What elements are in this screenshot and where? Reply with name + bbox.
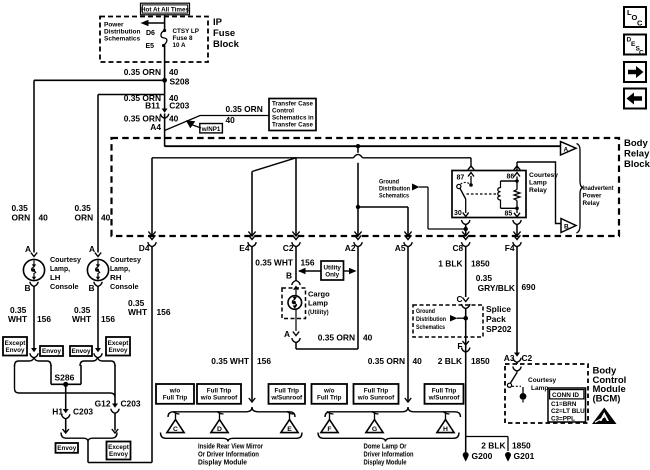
svg-text:Block: Block bbox=[213, 39, 240, 50]
svg-text:1850: 1850 bbox=[512, 441, 531, 451]
svg-text:F4: F4 bbox=[505, 243, 515, 253]
svg-text:Fuse: Fuse bbox=[213, 28, 235, 39]
svg-text:C2=LT BLU: C2=LT BLU bbox=[551, 408, 585, 415]
svg-text:Console: Console bbox=[110, 282, 139, 291]
svg-text:Distribution: Distribution bbox=[416, 316, 446, 323]
svg-text:A: A bbox=[284, 329, 290, 339]
svg-text:w/o: w/o bbox=[323, 388, 335, 395]
svg-text:Driver Information: Driver Information bbox=[364, 452, 414, 459]
svg-text:Body: Body bbox=[624, 138, 648, 149]
svg-text:A: A bbox=[564, 146, 569, 153]
svg-text:B: B bbox=[88, 283, 94, 293]
svg-text:Pack: Pack bbox=[486, 314, 506, 324]
svg-text:C: C bbox=[639, 50, 644, 57]
svg-text:0.35 ORN: 0.35 ORN bbox=[318, 333, 355, 343]
svg-text:CTSY LP: CTSY LP bbox=[173, 28, 199, 35]
svg-text:0.35: 0.35 bbox=[75, 203, 92, 213]
svg-text:Full Trip: Full Trip bbox=[364, 388, 389, 395]
svg-text:A4: A4 bbox=[150, 122, 161, 132]
svg-text:1 BLK: 1 BLK bbox=[438, 259, 462, 269]
svg-text:30: 30 bbox=[454, 210, 462, 217]
svg-text:156: 156 bbox=[257, 356, 271, 366]
svg-text:Power: Power bbox=[104, 22, 124, 29]
svg-text:C3=PPL: C3=PPL bbox=[551, 415, 575, 422]
svg-text:Inside Rear View Mirror: Inside Rear View Mirror bbox=[198, 444, 263, 451]
svg-text:Transfer Case: Transfer Case bbox=[272, 122, 313, 129]
svg-text:B11: B11 bbox=[145, 101, 160, 111]
svg-text:Envoy: Envoy bbox=[6, 347, 25, 354]
svg-text:Relay: Relay bbox=[529, 187, 547, 194]
svg-text:Courtesy: Courtesy bbox=[528, 377, 557, 384]
svg-text:Lamp: Lamp bbox=[529, 180, 547, 187]
svg-text:40: 40 bbox=[101, 213, 111, 223]
svg-text:Lamp,: Lamp, bbox=[110, 264, 130, 273]
svg-text:0.35 ORN: 0.35 ORN bbox=[226, 104, 263, 114]
svg-text:LH: LH bbox=[50, 273, 61, 282]
svg-text:A2: A2 bbox=[345, 243, 356, 253]
svg-text:Splice: Splice bbox=[486, 304, 511, 314]
svg-text:Lamp: Lamp bbox=[531, 385, 548, 392]
svg-text:Display Module: Display Module bbox=[198, 460, 247, 467]
svg-text:Only: Only bbox=[325, 272, 339, 279]
svg-text:D: D bbox=[217, 426, 222, 433]
svg-text:C: C bbox=[637, 19, 643, 28]
svg-text:Schematics: Schematics bbox=[416, 324, 445, 331]
svg-text:156: 156 bbox=[37, 314, 51, 324]
svg-text:ORN: ORN bbox=[75, 213, 94, 223]
svg-text:A5: A5 bbox=[395, 243, 406, 253]
svg-text:C8: C8 bbox=[452, 243, 463, 253]
svg-text:Or Driver Information: Or Driver Information bbox=[198, 452, 259, 459]
svg-text:E5: E5 bbox=[146, 43, 155, 50]
svg-text:C1=BRN: C1=BRN bbox=[551, 401, 577, 408]
svg-text:Envoy: Envoy bbox=[57, 445, 76, 452]
svg-text:2 BLK: 2 BLK bbox=[438, 356, 462, 366]
svg-text:85: 85 bbox=[505, 211, 513, 218]
svg-text:156: 156 bbox=[301, 258, 315, 268]
svg-text:Ground: Ground bbox=[416, 308, 435, 315]
svg-text:Utility: Utility bbox=[323, 265, 341, 272]
svg-text:Dome Lamp Or: Dome Lamp Or bbox=[364, 444, 407, 451]
svg-text:1850: 1850 bbox=[471, 356, 490, 366]
svg-text:Lamp,: Lamp, bbox=[50, 264, 70, 273]
svg-text:G12: G12 bbox=[95, 399, 111, 409]
svg-text:Full Trip: Full Trip bbox=[275, 388, 300, 395]
svg-text:C: C bbox=[173, 426, 178, 433]
svg-text:D6: D6 bbox=[146, 30, 155, 37]
svg-text:Envoy: Envoy bbox=[109, 347, 128, 354]
svg-text:w/o Sunroof: w/o Sunroof bbox=[357, 395, 395, 402]
svg-text:A: A bbox=[89, 244, 95, 254]
svg-text:w/o Sunroof: w/o Sunroof bbox=[200, 395, 238, 402]
svg-text:40: 40 bbox=[169, 67, 179, 77]
svg-text:CONN ID: CONN ID bbox=[552, 392, 579, 399]
svg-text:WHT: WHT bbox=[72, 314, 92, 324]
svg-text:Transfer Case: Transfer Case bbox=[272, 101, 313, 108]
svg-text:Cargo: Cargo bbox=[308, 290, 330, 299]
svg-text:156: 156 bbox=[101, 314, 115, 324]
svg-text:40: 40 bbox=[363, 333, 373, 343]
svg-text:C203: C203 bbox=[121, 399, 141, 409]
svg-text:S208: S208 bbox=[170, 77, 190, 87]
svg-text:Hot At All Times: Hot At All Times bbox=[141, 7, 190, 14]
svg-text:40: 40 bbox=[413, 356, 423, 366]
svg-text:Block: Block bbox=[624, 159, 650, 170]
svg-text:Full Trip: Full Trip bbox=[207, 388, 232, 395]
svg-text:G201: G201 bbox=[514, 451, 535, 461]
svg-text:Distribution: Distribution bbox=[379, 186, 410, 193]
svg-text:Courtesy: Courtesy bbox=[110, 255, 142, 264]
svg-text:0.35 WHT: 0.35 WHT bbox=[211, 356, 250, 366]
svg-text:Control: Control bbox=[272, 108, 294, 115]
svg-text:10 A: 10 A bbox=[173, 42, 187, 49]
svg-text:w/Sunroof: w/Sunroof bbox=[270, 395, 303, 402]
svg-text:E: E bbox=[287, 426, 292, 433]
svg-text:0.35: 0.35 bbox=[12, 203, 29, 213]
svg-text:(Utility): (Utility) bbox=[308, 310, 329, 316]
svg-text:B: B bbox=[24, 283, 30, 293]
svg-text:(BCM): (BCM) bbox=[593, 393, 621, 404]
svg-text:Full Trip: Full Trip bbox=[432, 388, 457, 395]
svg-text:690: 690 bbox=[522, 282, 536, 292]
svg-text:0.35: 0.35 bbox=[476, 273, 493, 283]
svg-text:Fuse 8: Fuse 8 bbox=[173, 35, 193, 42]
svg-text:E4: E4 bbox=[239, 243, 250, 253]
svg-text:G200: G200 bbox=[472, 451, 493, 461]
svg-text:Distribution: Distribution bbox=[104, 29, 140, 36]
svg-text:Except: Except bbox=[108, 340, 130, 347]
svg-text:86: 86 bbox=[507, 174, 515, 181]
svg-text:Schematics: Schematics bbox=[104, 36, 141, 43]
svg-text:w/o: w/o bbox=[169, 388, 181, 395]
svg-text:ORN: ORN bbox=[12, 213, 31, 223]
svg-text:Display Module: Display Module bbox=[364, 460, 407, 467]
svg-text:H: H bbox=[443, 426, 448, 433]
svg-text:RH: RH bbox=[110, 273, 122, 282]
svg-text:w/Sunroof: w/Sunroof bbox=[428, 395, 461, 402]
svg-text:GRY/BLK: GRY/BLK bbox=[478, 283, 515, 293]
svg-text:87: 87 bbox=[457, 175, 465, 182]
svg-text:A: A bbox=[25, 244, 31, 254]
svg-text:40: 40 bbox=[226, 115, 236, 125]
svg-text:WHT: WHT bbox=[8, 314, 28, 324]
svg-text:Ground: Ground bbox=[379, 179, 399, 186]
svg-text:IP: IP bbox=[213, 17, 223, 28]
svg-text:C203: C203 bbox=[169, 101, 189, 111]
svg-text:1850: 1850 bbox=[471, 259, 490, 269]
svg-text:Courtesy: Courtesy bbox=[50, 255, 82, 264]
svg-text:w/NP1: w/NP1 bbox=[201, 126, 221, 133]
svg-text:0.35 ORN: 0.35 ORN bbox=[368, 356, 405, 366]
svg-text:B: B bbox=[286, 271, 292, 281]
svg-text:C2: C2 bbox=[522, 353, 533, 363]
svg-text:Except: Except bbox=[5, 340, 27, 347]
svg-text:SP202: SP202 bbox=[486, 324, 512, 334]
svg-text:0.35 ORN: 0.35 ORN bbox=[124, 67, 161, 77]
svg-text:Relay: Relay bbox=[583, 200, 600, 207]
svg-text:Envoy: Envoy bbox=[109, 451, 128, 458]
svg-text:C: C bbox=[456, 294, 462, 304]
svg-text:Relay: Relay bbox=[624, 149, 650, 160]
svg-text:B: B bbox=[564, 224, 569, 231]
svg-text:2 BLK: 2 BLK bbox=[481, 441, 505, 451]
svg-text:C2: C2 bbox=[283, 243, 294, 253]
svg-text:Envoy: Envoy bbox=[42, 348, 61, 355]
svg-text:Envoy: Envoy bbox=[72, 348, 91, 355]
svg-text:40: 40 bbox=[169, 114, 179, 124]
svg-text:0.35 WHT: 0.35 WHT bbox=[255, 258, 294, 268]
svg-text:Except: Except bbox=[108, 444, 130, 451]
svg-text:Lamp: Lamp bbox=[308, 299, 328, 308]
svg-text:C203: C203 bbox=[73, 407, 93, 417]
svg-text:WHT: WHT bbox=[128, 307, 148, 317]
svg-text:G: G bbox=[372, 426, 377, 433]
svg-text:Courtesy: Courtesy bbox=[529, 172, 558, 179]
svg-text:Full Trip: Full Trip bbox=[317, 395, 342, 402]
svg-text:D4: D4 bbox=[139, 243, 150, 253]
svg-text:F: F bbox=[327, 426, 331, 433]
svg-text:Schematics in: Schematics in bbox=[272, 115, 314, 122]
svg-text:Schematics: Schematics bbox=[379, 193, 409, 200]
svg-text:40: 40 bbox=[39, 213, 49, 223]
svg-text:Full Trip: Full Trip bbox=[163, 395, 188, 402]
svg-text:Power: Power bbox=[583, 193, 602, 200]
svg-text:S286: S286 bbox=[55, 373, 75, 383]
svg-text:Inadvertent: Inadvertent bbox=[583, 185, 615, 192]
svg-text:Console: Console bbox=[50, 282, 79, 291]
svg-text:156: 156 bbox=[157, 307, 171, 317]
